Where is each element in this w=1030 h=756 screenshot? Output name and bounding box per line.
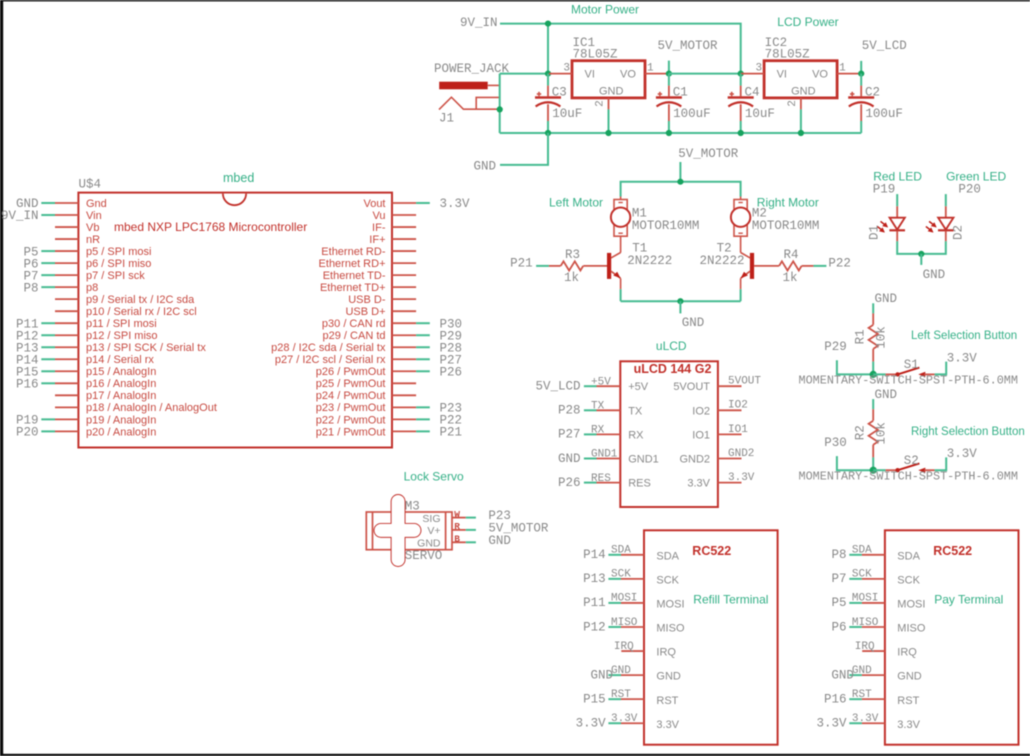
svg-text:IO1: IO1 [692, 429, 710, 441]
svg-text:SDA: SDA [897, 550, 920, 562]
svg-text:3.3V: 3.3V [816, 717, 847, 731]
svg-text:p8: p8 [86, 282, 98, 294]
junction rail C4 [738, 130, 744, 136]
mbed pin p17 / AnalogIn [55, 390, 156, 402]
svg-text:SERVO: SERVO [405, 549, 443, 563]
svg-text:GND1: GND1 [591, 449, 618, 461]
svg-text:SIG: SIG [422, 513, 440, 525]
RC522 Pay Terminal pin 3.3V [816, 713, 920, 731]
svg-text:LCD Power: LCD Power [777, 15, 838, 29]
wire 9V_IN top rail [500, 24, 741, 74]
svg-text:P8: P8 [831, 548, 846, 562]
svg-text:P26: P26 [558, 476, 581, 490]
svg-text:GND: GND [923, 268, 946, 282]
capacitor C1 100uF [668, 74, 670, 86]
svg-text:P22: P22 [828, 256, 851, 270]
svg-text:P30: P30 [824, 436, 847, 450]
mbed pin Ethernet TD+ [320, 282, 416, 294]
junction motor rail [677, 179, 683, 185]
svg-text:Vb: Vb [86, 222, 99, 234]
svg-text:P12: P12 [583, 620, 606, 634]
wire P30 to junction [837, 456, 873, 470]
svg-text:p27 / I2C scl / Serial rx: p27 / I2C scl / Serial rx [275, 354, 386, 366]
servo pin R net 5V_MOTOR [452, 521, 549, 535]
svg-text:Refill Terminal: Refill Terminal [693, 593, 768, 607]
svg-text:P16: P16 [824, 692, 847, 706]
junction input row at C3 [545, 71, 551, 77]
svg-text:MOSI: MOSI [611, 593, 637, 605]
svg-text:3.3V: 3.3V [852, 713, 879, 725]
RC522 Refill Terminal pin RST [583, 689, 679, 707]
svg-text:3.3V: 3.3V [440, 197, 471, 211]
svg-text:nR: nR [86, 234, 100, 246]
RC522 Pay Terminal pin MISO [831, 617, 925, 635]
resistor R1 10k [854, 313, 889, 361]
svg-text:C3: C3 [552, 86, 567, 100]
wire LED cathodes to ground [897, 241, 946, 254]
voltage regulator IC2 78L05Z [764, 61, 837, 98]
svg-text:3.3V: 3.3V [611, 713, 638, 725]
junction button S2 [870, 467, 877, 474]
RC522 box Pay Terminal [885, 530, 1019, 744]
capacitor C4 10uF [740, 74, 742, 86]
svg-text:V+: V+ [427, 525, 440, 537]
uLCD pin 5VOUT [673, 376, 761, 394]
svg-text:TX: TX [591, 401, 605, 413]
mbed pin IF+ [369, 234, 416, 246]
svg-text:3.3V: 3.3V [897, 719, 920, 731]
svg-text:SDA: SDA [852, 545, 872, 557]
svg-text:10uF: 10uF [745, 107, 775, 121]
uLCD pin GND1 [558, 449, 659, 466]
RC522 Refill Terminal pin MOSI [583, 593, 684, 611]
svg-text:RX: RX [591, 425, 605, 437]
LED D2 [926, 194, 966, 241]
RC522 Pay Terminal pin MOSI [831, 593, 925, 611]
svg-text:J1: J1 [439, 112, 454, 126]
svg-text:5VOUT: 5VOUT [728, 376, 761, 388]
svg-text:Vin: Vin [86, 210, 102, 222]
pin stub IC1 GND pin 2 [595, 98, 609, 110]
wire GND label to rail [500, 133, 548, 165]
uLCD 144 G2 box outline [620, 361, 718, 507]
mbed pin p24 / PwmOut [316, 390, 416, 402]
svg-text:GND: GND [831, 668, 854, 682]
svg-text:5VOUT: 5VOUT [673, 381, 710, 393]
wire M1 to T1 collector [620, 236, 622, 252]
svg-text:p11 / SPI mosi: p11 / SPI mosi [86, 318, 157, 330]
svg-text:P14: P14 [583, 548, 606, 562]
svg-text:p18 / AnalogIn / AnalogOut: p18 / AnalogIn / AnalogOut [86, 402, 217, 414]
pin stub IC1 VI [549, 73, 572, 75]
RC522 box Refill Terminal [644, 530, 778, 744]
svg-text:S2: S2 [904, 454, 919, 468]
RC522 Refill Terminal pin IRQ [614, 641, 677, 659]
svg-text:GND2: GND2 [679, 454, 710, 466]
svg-text:9V_IN: 9V_IN [460, 16, 498, 30]
mbed pin p22 / PwmOut [316, 414, 462, 428]
svg-text:GND: GND [590, 668, 613, 682]
wire T1 emitter down [620, 278, 622, 289]
uLCD pin TX [558, 401, 643, 418]
svg-text:3.3V: 3.3V [947, 351, 978, 365]
junction IC2 input [738, 71, 744, 77]
servo pin B net GND [452, 534, 511, 548]
svg-text:P8: P8 [23, 281, 38, 295]
svg-text:GND: GND [791, 86, 816, 98]
servo pin names [417, 513, 441, 550]
svg-text:RC522: RC522 [692, 544, 731, 558]
capacitor C3 10uF [547, 74, 549, 86]
mbed pin Ethernet TD- [323, 270, 416, 282]
svg-text:MOTOR10MM: MOTOR10MM [752, 219, 820, 233]
mbed pin p13 / SPI SCK / Serial tx [16, 341, 206, 355]
mbed pin Vin [1, 209, 102, 223]
svg-text:10k: 10k [875, 422, 889, 445]
wire 5V_MOTOR label stub [668, 61, 670, 74]
RC522 Pay Terminal pin SCK [831, 569, 920, 587]
svg-text:IRQ: IRQ [897, 647, 917, 659]
switch S2 MOMENTARY-SWITCH-SPST-PTH-6.0MM [873, 469, 885, 471]
RC522 Pay Terminal pin RST [824, 689, 920, 707]
svg-text:+5V: +5V [628, 381, 649, 393]
svg-text:p6 / SPI miso: p6 / SPI miso [86, 258, 151, 270]
junction rail IC1 GND [605, 130, 611, 136]
pin stub IC2 VI [741, 73, 764, 75]
svg-text:2N2222: 2N2222 [627, 254, 672, 268]
svg-text:3.3V: 3.3V [687, 478, 710, 490]
svg-text:C2: C2 [865, 86, 880, 100]
svg-text:p15 / AnalogIn: p15 / AnalogIn [86, 366, 156, 378]
svg-text:SCK: SCK [852, 569, 872, 581]
svg-text:1k: 1k [564, 271, 579, 285]
svg-text:3.3V: 3.3V [656, 719, 679, 731]
mbed pin p6 / SPI miso [23, 257, 151, 271]
svg-text:MOSI: MOSI [852, 593, 878, 605]
svg-text:uLCD: uLCD [656, 339, 687, 353]
svg-text:Ethernet RD-: Ethernet RD- [321, 246, 386, 258]
mbed pin Vout [363, 197, 470, 211]
mbed pin p15 / AnalogIn [16, 365, 156, 379]
svg-text:Ethernet TD+: Ethernet TD+ [320, 282, 386, 294]
svg-text:IRQ: IRQ [614, 641, 634, 653]
wire power jack vertical to ground rail [499, 74, 501, 133]
servo M3 body [366, 512, 452, 550]
mbed pin p18 / AnalogIn / AnalogOut [55, 402, 217, 414]
svg-text:TX: TX [628, 405, 643, 417]
svg-text:IO1: IO1 [728, 424, 748, 436]
svg-text:5V_MOTOR: 5V_MOTOR [678, 147, 739, 161]
svg-text:R4: R4 [783, 248, 798, 262]
resistor R3 1k [549, 248, 607, 285]
svg-text:P11: P11 [583, 596, 606, 610]
svg-text:RST: RST [852, 689, 872, 701]
transistor T2 2N2222 [699, 242, 754, 279]
svg-text:Left Selection Button: Left Selection Button [911, 330, 1017, 342]
svg-text:P20: P20 [16, 426, 39, 440]
svg-text:p28 / I2C sda / Serial tx: p28 / I2C sda / Serial tx [271, 342, 386, 354]
svg-text:P7: P7 [831, 572, 846, 586]
junction IC2 output [858, 71, 864, 77]
svg-text:SDA: SDA [656, 550, 679, 562]
wire P29 to junction [837, 360, 873, 374]
RC522 Refill Terminal pin 3.3V [576, 713, 680, 731]
svg-text:mbed NXP LPC1768 Microcontroll: mbed NXP LPC1768 Microcontroller [114, 220, 307, 234]
RC522 Pay Terminal pin IRQ [855, 641, 918, 659]
svg-text:Red LED: Red LED [873, 170, 922, 184]
svg-text:USB D+: USB D+ [345, 306, 385, 318]
svg-text:IRQ: IRQ [656, 647, 676, 659]
svg-text:P19: P19 [873, 183, 896, 197]
junction IC1 output [666, 71, 672, 77]
mbed pin USB D+ [345, 306, 416, 318]
svg-text:P6: P6 [831, 620, 846, 634]
svg-text:VO: VO [620, 69, 636, 81]
svg-text:Ethernet TD-: Ethernet TD- [323, 270, 386, 282]
transistor T1 2N2222 [607, 242, 672, 279]
svg-text:5V_LCD: 5V_LCD [535, 380, 580, 394]
mbed pin Vu [372, 210, 416, 222]
svg-text:IF+: IF+ [369, 234, 385, 246]
svg-text:D1: D1 [867, 225, 881, 240]
svg-text:MISO: MISO [897, 623, 926, 635]
mbed pin p14 / Serial rx [16, 353, 154, 367]
svg-text:p20 / AnalogIn: p20 / AnalogIn [86, 426, 156, 438]
svg-text:VI: VI [585, 69, 595, 81]
svg-text:IRQ: IRQ [855, 641, 875, 653]
wire IC1 output to IC2 input [669, 73, 741, 75]
wire 5V_MOTOR label stub down [679, 162, 681, 182]
servo horn cross [375, 495, 421, 566]
svg-text:p29 / CAN td: p29 / CAN td [323, 330, 386, 342]
svg-text:RX: RX [628, 429, 644, 441]
mbed pin Gnd [16, 197, 107, 211]
svg-text:uLCD 144 G2: uLCD 144 G2 [634, 362, 712, 376]
svg-text:P16: P16 [16, 378, 39, 392]
junction rail C3 [545, 130, 551, 136]
svg-text:5V_LCD: 5V_LCD [862, 39, 907, 53]
wire P22 to R4 [813, 265, 826, 267]
svg-text:p7 / SPI sck: p7 / SPI sck [86, 270, 145, 282]
wire input row from power jack [500, 73, 550, 75]
uLCD pin IO2 [692, 400, 748, 418]
svg-text:IF-: IF- [372, 222, 386, 234]
wire LED GND stub [920, 254, 922, 265]
svg-text:Lock Servo: Lock Servo [404, 470, 464, 484]
mbed pin p16 / AnalogIn [16, 378, 156, 392]
mbed pin Ethernet RD+ [319, 258, 417, 270]
svg-text:SCK: SCK [897, 574, 920, 586]
svg-text:P20: P20 [958, 183, 981, 197]
svg-text:9V_IN: 9V_IN [1, 209, 39, 223]
svg-text:R1: R1 [854, 329, 868, 344]
voltage regulator IC1 78L05Z [572, 61, 645, 98]
wire GND stub to R2 [872, 399, 874, 409]
mbed pin p11 / SPI mosi [16, 317, 157, 331]
svg-text:Motor Power: Motor Power [571, 3, 639, 17]
svg-text:2N2222: 2N2222 [699, 254, 744, 268]
svg-text:p17 / AnalogIn: p17 / AnalogIn [86, 390, 156, 402]
svg-text:RC522: RC522 [933, 544, 972, 558]
mbed pin p26 / PwmOut [316, 365, 462, 379]
svg-text:Gnd: Gnd [86, 198, 107, 210]
RC522 Pay Terminal pin GND [831, 665, 921, 683]
pin stub IC2 GND pin 2 [787, 98, 801, 110]
motor M1 MOTOR10MM [611, 200, 700, 237]
wire M2 to T2 collector [740, 236, 742, 252]
mbed pin p25 / PwmOut [316, 378, 416, 390]
resistor R4 1k [754, 248, 813, 285]
svg-text:GND: GND [488, 534, 511, 548]
uLCD pin 3.3V [687, 472, 754, 490]
mbed pin p29 / CAN td [323, 329, 463, 343]
mbed pin nR [55, 234, 100, 246]
svg-text:M3: M3 [405, 500, 420, 514]
svg-text:RES: RES [591, 473, 611, 485]
svg-text:R3: R3 [565, 248, 580, 262]
svg-text:P21: P21 [510, 256, 533, 270]
svg-text:P27: P27 [558, 428, 581, 442]
mbed microcontroller U$4 outline [78, 193, 392, 448]
junction on 9V_IN rail [545, 21, 551, 27]
junction motor ground [677, 298, 683, 304]
svg-text:100uF: 100uF [673, 107, 711, 121]
RC522 Refill Terminal pin GND [590, 665, 680, 683]
frame: top black edge [0, 0, 1030, 1]
svg-text:GND: GND [473, 160, 496, 174]
RC522 Refill Terminal pin MISO [583, 617, 685, 635]
svg-text:10uF: 10uF [552, 107, 582, 121]
svg-text:RST: RST [656, 695, 678, 707]
wire 5V_LCD label stub [860, 61, 862, 74]
svg-text:P21: P21 [440, 426, 463, 440]
svg-text:B: B [454, 534, 460, 545]
wire 9V_IN drop to input row [547, 24, 549, 74]
svg-text:p23 / PwmOut: p23 / PwmOut [316, 402, 386, 414]
svg-text:C4: C4 [745, 86, 760, 100]
svg-text:S1: S1 [904, 358, 919, 372]
wire GND stub to R1 [872, 303, 874, 313]
svg-text:GND: GND [417, 538, 441, 550]
svg-text:Ethernet RD+: Ethernet RD+ [319, 258, 386, 270]
svg-text:GND: GND [682, 316, 705, 330]
frame: bottom black edge [0, 754, 1030, 756]
svg-text:Pay Terminal: Pay Terminal [934, 593, 1003, 607]
svg-text:10k: 10k [875, 326, 889, 349]
uLCD pin IO1 [692, 424, 748, 442]
svg-text:p25 / PwmOut: p25 / PwmOut [316, 378, 386, 390]
mbed pin IF- [372, 222, 416, 234]
switch S1 MOMENTARY-SWITCH-SPST-PTH-6.0MM [873, 373, 885, 375]
svg-text:GND: GND [599, 86, 624, 98]
svg-text:3.3V: 3.3V [947, 447, 978, 461]
mbed pin USB D- [348, 294, 416, 306]
svg-text:5V_MOTOR: 5V_MOTOR [658, 39, 719, 53]
svg-text:p16 / AnalogIn: p16 / AnalogIn [86, 378, 156, 390]
svg-text:+5V: +5V [591, 376, 611, 388]
svg-text:100uF: 100uF [865, 107, 903, 121]
svg-text:SCK: SCK [656, 574, 679, 586]
wire P21 to R3 [536, 265, 549, 267]
wire IC2 GND to rail [800, 109, 802, 133]
svg-text:P5: P5 [831, 596, 846, 610]
mbed pin p27 / I2C scl / Serial rx [275, 353, 462, 367]
svg-text:RST: RST [611, 689, 631, 701]
svg-text:GND1: GND1 [628, 454, 659, 466]
servo pin W net P23 [452, 509, 511, 523]
mbed pin p9 / Serial tx / I2C sda [55, 294, 195, 306]
LED D1 [867, 194, 905, 241]
svg-text:USB D-: USB D- [348, 294, 386, 306]
mbed pin p20 / AnalogIn [16, 426, 156, 440]
junction rail IC2 GND [798, 130, 804, 136]
svg-text:p26 / PwmOut: p26 / PwmOut [316, 366, 386, 378]
svg-text:p9 / Serial tx / I2C sda: p9 / Serial tx / I2C sda [86, 294, 195, 306]
svg-text:GND: GND [656, 671, 681, 683]
svg-text:2: 2 [595, 100, 607, 107]
svg-text:Green LED: Green LED [946, 170, 1006, 184]
junction jack pin [497, 106, 503, 112]
RC522 Pay Terminal pin SDA [831, 545, 920, 563]
svg-text:P26: P26 [440, 365, 463, 379]
svg-text:POWER_JACK: POWER_JACK [434, 62, 510, 76]
svg-text:p5 / SPI mosi: p5 / SPI mosi [86, 246, 151, 258]
svg-text:p14 / Serial rx: p14 / Serial rx [86, 354, 154, 366]
pin stub IC1 VO [645, 73, 669, 75]
svg-text:3.3V: 3.3V [728, 472, 755, 484]
svg-text:Vout: Vout [363, 198, 385, 210]
frame: left black edge [0, 0, 3, 756]
mbed pin Ethernet RD- [321, 246, 416, 258]
svg-text:R2: R2 [854, 425, 868, 440]
svg-text:78L05Z: 78L05Z [765, 48, 811, 62]
mbed pin p19 / AnalogIn [16, 414, 156, 428]
svg-text:p19 / AnalogIn: p19 / AnalogIn [86, 414, 156, 426]
mbed pin p8 [23, 281, 98, 295]
svg-text:p21 / PwmOut: p21 / PwmOut [316, 426, 386, 438]
svg-text:MISO: MISO [611, 617, 638, 629]
mbed pin Vb [55, 222, 99, 234]
mbed pin p7 / SPI sck [23, 269, 145, 283]
svg-text:P28: P28 [558, 404, 581, 418]
mbed pin p12 / SPI miso [16, 329, 158, 343]
svg-text:1k: 1k [782, 271, 797, 285]
svg-text:GND: GND [897, 671, 922, 683]
mbed pin p21 / PwmOut [316, 426, 462, 440]
wire R2 to junction [872, 457, 874, 470]
wire ground rail of power section [500, 132, 862, 134]
svg-text:MOMENTARY-SWITCH-SPST-PTH-6.0M: MOMENTARY-SWITCH-SPST-PTH-6.0MM [799, 374, 1018, 388]
mbed pin p28 / I2C sda / Serial tx [271, 341, 462, 355]
svg-text:MOSI: MOSI [897, 599, 925, 611]
svg-text:GND: GND [558, 452, 581, 466]
svg-text:p30 / CAN rd: p30 / CAN rd [322, 318, 386, 330]
svg-text:P15: P15 [583, 692, 606, 706]
svg-text:p12 / SPI miso: p12 / SPI miso [86, 330, 158, 342]
svg-text:SCK: SCK [611, 569, 631, 581]
svg-text:p22 / PwmOut: p22 / PwmOut [316, 414, 386, 426]
svg-text:W: W [454, 509, 460, 520]
svg-text:GND: GND [611, 665, 631, 677]
svg-text:Right Selection Button: Right Selection Button [911, 426, 1025, 438]
pin stub IC2 VO [837, 73, 861, 75]
mbed pin p23 / PwmOut [316, 402, 462, 416]
wire R1 to junction [872, 362, 874, 375]
uLCD pin +5V [535, 376, 648, 393]
svg-text:R: R [454, 521, 460, 532]
svg-text:MOTOR10MM: MOTOR10MM [632, 219, 700, 233]
svg-text:MISO: MISO [852, 617, 879, 629]
